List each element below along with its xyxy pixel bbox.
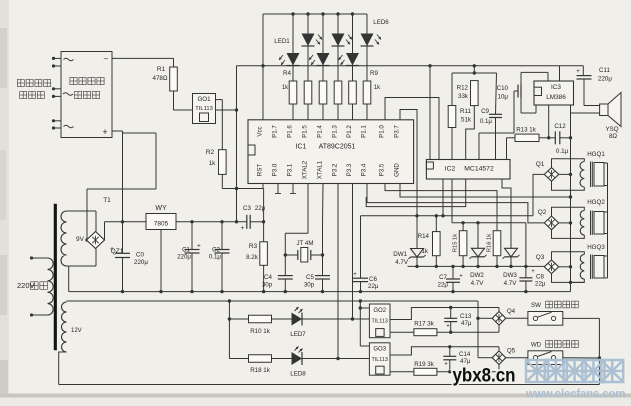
svg-text:0.1μ: 0.1μ bbox=[480, 118, 493, 125]
svg-text:P3.3: P3.3 bbox=[346, 163, 353, 176]
capacitor C14 47u bbox=[443, 347, 471, 372]
svg-text:XTAL2: XTAL2 bbox=[302, 160, 309, 179]
triac driver Q5 bbox=[492, 348, 515, 365]
svg-text:IC3: IC3 bbox=[551, 84, 561, 91]
svg-text:Q2: Q2 bbox=[538, 209, 547, 216]
bridge rectifier QZ1 bbox=[87, 232, 124, 256]
svg-text:WY: WY bbox=[155, 205, 167, 212]
IC1 top pin labels bbox=[257, 125, 401, 138]
zener DW1 4.7V bbox=[393, 216, 425, 267]
wire GO1 collector to R2 bbox=[216, 100, 223, 150]
wire rail B bbox=[452, 179, 526, 225]
wire +5V rail bbox=[176, 220, 247, 223]
triac driver Q3 bbox=[536, 254, 559, 274]
svg-text:4.7V: 4.7V bbox=[395, 259, 409, 266]
resistor R16 1k bbox=[486, 231, 500, 267]
watermark www.elecfans.com bbox=[525, 389, 625, 401]
svg-text:LED6: LED6 bbox=[373, 19, 389, 26]
svg-text:Q4: Q4 bbox=[507, 308, 516, 315]
wire LED7 to GO2 bbox=[302, 318, 369, 320]
svg-text:R18 1k: R18 1k bbox=[250, 367, 271, 374]
capacitor C9 0.1u bbox=[480, 73, 502, 160]
svg-text:HGQ1: HGQ1 bbox=[587, 151, 605, 158]
svg-text:GO1: GO1 bbox=[197, 96, 211, 103]
resistor R8 1k bbox=[349, 81, 357, 120]
svg-text:220μ: 220μ bbox=[598, 76, 612, 83]
svg-text:+: + bbox=[531, 269, 535, 275]
svg-text:C6: C6 bbox=[369, 276, 377, 283]
svg-text:C12: C12 bbox=[554, 123, 566, 130]
wire Q1 to HGQ1 bbox=[552, 159, 585, 190]
svg-text:LED8: LED8 bbox=[290, 371, 306, 378]
T1 220V primary winding bbox=[30, 256, 53, 316]
wire Vcc riser node A bbox=[235, 66, 238, 224]
svg-text:LED7: LED7 bbox=[290, 331, 306, 338]
LED6 indicator diode bbox=[361, 14, 382, 81]
LED3 indicator diode bbox=[309, 14, 330, 81]
IC2 MC14572 bbox=[426, 160, 510, 180]
svg-text:C5: C5 bbox=[306, 274, 314, 281]
resistor R1 478 ohm bbox=[153, 66, 178, 91]
svg-text:Q1: Q1 bbox=[536, 161, 545, 168]
svg-text:–: – bbox=[104, 54, 109, 63]
svg-text:C4: C4 bbox=[264, 274, 272, 281]
svg-text:+: + bbox=[353, 272, 357, 278]
wire WD return bbox=[563, 357, 600, 359]
wire IC3 output bbox=[571, 105, 600, 113]
svg-text:LM386: LM386 bbox=[546, 94, 566, 101]
relay input terminals bbox=[52, 57, 61, 130]
svg-text:1k: 1k bbox=[209, 160, 216, 167]
svg-text:33k: 33k bbox=[458, 93, 469, 100]
LED7 bbox=[272, 307, 307, 338]
label R9 1k bbox=[370, 70, 381, 91]
svg-text:8Ω: 8Ω bbox=[609, 133, 617, 140]
resistor R14 1k bbox=[418, 216, 440, 267]
wire R19 to Q5 bbox=[437, 365, 499, 374]
svg-text:12V: 12V bbox=[71, 328, 82, 334]
triac driver Q4 bbox=[492, 308, 515, 325]
wire Q4 to SW bbox=[506, 317, 528, 319]
svg-text:1k: 1k bbox=[282, 85, 289, 91]
svg-text:P3.2: P3.2 bbox=[332, 163, 339, 176]
svg-text:C7: C7 bbox=[439, 274, 447, 281]
label 220V input bbox=[17, 281, 47, 290]
wire Q5 to WD bbox=[506, 357, 528, 359]
wire Q5 top bbox=[498, 347, 500, 351]
svg-text:MC14572: MC14572 bbox=[464, 166, 494, 173]
svg-text:TIL113: TIL113 bbox=[372, 357, 388, 363]
svg-text:HGQ3: HGQ3 bbox=[587, 244, 605, 251]
watermark elecfans logo bbox=[526, 360, 623, 382]
svg-text:P1.3: P1.3 bbox=[332, 125, 339, 138]
IC1 AT89C2051 microcontroller bbox=[248, 120, 414, 184]
svg-text:C2: C2 bbox=[212, 247, 220, 254]
triac driver Q2 bbox=[538, 209, 559, 230]
wire Q2 to HGQ2 bbox=[552, 207, 585, 238]
relay K1 three-phase solid state relay box bbox=[61, 52, 112, 138]
svg-text:RST: RST bbox=[257, 164, 264, 177]
LED4 indicator diode bbox=[332, 14, 353, 81]
LED1 indicator diode bbox=[279, 14, 300, 81]
wire XTAL2 column bbox=[284, 184, 308, 276]
svg-text:JT 4M: JT 4M bbox=[296, 240, 313, 247]
svg-text:HGQ2: HGQ2 bbox=[587, 199, 605, 206]
wire Vcc column to IC1 bbox=[261, 14, 264, 120]
svg-text:P1.1: P1.1 bbox=[361, 125, 368, 138]
optocoupler GO3 TIL113 bbox=[369, 343, 390, 375]
wire IC2 pin jog bbox=[366, 179, 466, 207]
svg-text:R10 1k: R10 1k bbox=[250, 328, 271, 335]
svg-text:GO2: GO2 bbox=[373, 308, 386, 314]
capacitor C2 0.1u bbox=[209, 222, 230, 292]
ground rail bbox=[69, 266, 571, 293]
wire XTAL1 column bbox=[321, 184, 324, 276]
svg-text:10μ: 10μ bbox=[498, 94, 509, 101]
wire Vcc to IC2 bbox=[429, 66, 431, 160]
svg-text:P1.7: P1.7 bbox=[272, 125, 279, 138]
wire P3.5 to R16 bbox=[385, 184, 497, 231]
wire R17 to Q4 bbox=[437, 325, 499, 334]
wire P3.4 to Q2 control bbox=[367, 184, 544, 223]
svg-text:P1.6: P1.6 bbox=[287, 125, 294, 138]
wire HGQ output common bbox=[604, 163, 608, 278]
wire R11 R12 top rail bbox=[452, 66, 497, 75]
svg-text:IC1: IC1 bbox=[296, 144, 307, 151]
svg-text:51k: 51k bbox=[461, 117, 472, 124]
wire P3.2 column bbox=[336, 184, 339, 361]
svg-text:YSQ: YSQ bbox=[605, 126, 618, 133]
resistor R17 3k bbox=[390, 321, 437, 336]
capacitor C11 220u bbox=[576, 66, 612, 106]
wire C10 bottom loop bbox=[521, 98, 536, 114]
svg-text:P1.4: P1.4 bbox=[317, 125, 324, 138]
label 温度开关 bbox=[546, 341, 579, 348]
transformer T1 core bbox=[54, 197, 111, 350]
svg-text:C9: C9 bbox=[481, 108, 489, 115]
optocoupler GO2 TIL113 bbox=[369, 304, 390, 338]
Vcc distribution bus bbox=[237, 64, 584, 67]
svg-text:8.2k: 8.2k bbox=[246, 254, 259, 261]
svg-text:GO3: GO3 bbox=[373, 347, 386, 353]
svg-text:C11: C11 bbox=[599, 67, 610, 74]
T1 12V secondary winding bbox=[59, 302, 82, 385]
svg-text:GND: GND bbox=[394, 163, 401, 177]
svg-text:47μ: 47μ bbox=[461, 320, 472, 327]
LED5 indicator diode bbox=[339, 14, 360, 81]
LED2 indicator diode bbox=[302, 14, 323, 81]
svg-text:Vcc: Vcc bbox=[257, 126, 264, 136]
svg-text:C8: C8 bbox=[536, 274, 544, 281]
svg-text:P3.1: P3.1 bbox=[287, 163, 294, 176]
svg-text:+: + bbox=[459, 274, 463, 280]
label R4 1k bbox=[282, 70, 292, 91]
svg-text:P3.7: P3.7 bbox=[394, 125, 401, 138]
svg-text:T1: T1 bbox=[103, 197, 111, 204]
wire sensing column bbox=[228, 301, 231, 359]
svg-text:+: + bbox=[241, 225, 245, 232]
scan artifact bottom band bbox=[0, 394, 631, 398]
svg-text:7805: 7805 bbox=[154, 221, 169, 228]
svg-text:R19 3k: R19 3k bbox=[414, 361, 435, 368]
crystal JT 4M bbox=[285, 240, 322, 262]
svg-text:+: + bbox=[110, 246, 114, 253]
wire C10 to IC3 input bbox=[521, 72, 548, 84]
svg-text:DW3: DW3 bbox=[503, 272, 517, 279]
svg-text:IC2: IC2 bbox=[445, 166, 456, 173]
speaker YSQ 8 ohm bbox=[600, 93, 621, 141]
capacitor C4 30p bbox=[262, 274, 293, 292]
capacitor C5 30p bbox=[304, 274, 330, 292]
wire Q3 to HGQ3 bbox=[552, 252, 585, 283]
wire GO2 output to C13 rail bbox=[390, 306, 499, 320]
wire rail B drop bbox=[525, 223, 527, 267]
svg-text:22μ: 22μ bbox=[438, 282, 449, 289]
svg-text:1k: 1k bbox=[374, 85, 381, 91]
pulse transformer HGQ2 bbox=[580, 199, 605, 235]
svg-text:R4: R4 bbox=[283, 70, 291, 77]
svg-text:4.7V: 4.7V bbox=[471, 280, 485, 287]
label LED6 bbox=[373, 19, 389, 26]
svg-text:220μ: 220μ bbox=[177, 254, 191, 261]
resistor R10 1k bbox=[229, 315, 271, 335]
svg-text:+: + bbox=[444, 362, 448, 368]
wire SW return bbox=[563, 318, 601, 384]
scan artifact left band bbox=[0, 0, 9, 406]
resistor R2 1k bbox=[206, 149, 226, 174]
wire RST pin column bbox=[262, 184, 265, 292]
wire Q1 control bbox=[533, 174, 544, 215]
svg-text:R2: R2 bbox=[206, 149, 215, 156]
wire GO3 output to C14 rail bbox=[390, 345, 499, 355]
svg-text:478Ω: 478Ω bbox=[153, 75, 168, 82]
wire R1 to GO1 bbox=[174, 91, 193, 110]
capacitor C8 22u bbox=[519, 266, 545, 291]
svg-text:R12: R12 bbox=[457, 85, 469, 92]
svg-text:SW: SW bbox=[531, 302, 541, 309]
svg-text:R17 3k: R17 3k bbox=[414, 321, 435, 328]
resistor R9 1k bbox=[363, 81, 371, 120]
T1 9V secondary winding bbox=[61, 211, 96, 266]
regulator WY 7805 bbox=[146, 205, 176, 230]
wire IC3 bypass stub bbox=[548, 105, 550, 138]
svg-text:0.1μ: 0.1μ bbox=[209, 254, 222, 261]
wire relay minus to R1 bbox=[112, 58, 174, 67]
svg-text:Q5: Q5 bbox=[507, 348, 516, 355]
svg-text:P1.0: P1.0 bbox=[379, 125, 386, 138]
resistor R11 51k bbox=[448, 73, 472, 160]
watermark ybx8.cn bbox=[453, 365, 516, 387]
svg-text:22μ: 22μ bbox=[535, 281, 546, 288]
svg-text:1k: 1k bbox=[421, 248, 428, 255]
svg-text:220μ: 220μ bbox=[134, 259, 148, 266]
label 控制三相电热管 bbox=[17, 80, 50, 99]
svg-text:Q3: Q3 bbox=[536, 254, 545, 261]
svg-text:LED1: LED1 bbox=[274, 38, 290, 45]
svg-text:C3: C3 bbox=[243, 205, 251, 212]
svg-text:P1.5: P1.5 bbox=[302, 125, 309, 138]
resistor R18 1k bbox=[229, 355, 271, 374]
svg-text:R15 1k: R15 1k bbox=[453, 234, 459, 252]
svg-text:R14: R14 bbox=[418, 233, 430, 240]
resistor R19 3k bbox=[390, 361, 437, 375]
wire IC3 Vcc stub bbox=[559, 66, 561, 81]
zener DW2 4.7V bbox=[470, 223, 487, 287]
wire P1.0 to IC2 bbox=[385, 98, 439, 160]
svg-text:+: + bbox=[102, 127, 107, 137]
svg-text:R16 1k: R16 1k bbox=[486, 234, 492, 252]
pulse transformer HGQ3 bbox=[580, 244, 605, 279]
wire P3.7 to zener rail bbox=[400, 110, 417, 216]
svg-text:TIL113: TIL113 bbox=[372, 319, 388, 325]
capacitor C10 10u bbox=[479, 85, 521, 160]
switch SW water level bbox=[528, 302, 563, 325]
svg-text:R13 1k: R13 1k bbox=[516, 127, 537, 134]
resistor R7 1k bbox=[334, 81, 342, 120]
svg-text:WD: WD bbox=[531, 342, 542, 349]
svg-text:C1: C1 bbox=[182, 247, 190, 254]
Vcc top bus bbox=[263, 12, 367, 15]
svg-text:P3.4: P3.4 bbox=[361, 163, 368, 176]
zener DW3 4.7V bbox=[502, 179, 520, 287]
wire Q4 control bbox=[476, 301, 492, 358]
wire ground rail return bbox=[571, 281, 585, 283]
triac driver Q1 bbox=[536, 161, 559, 181]
NC stub P3.1 bbox=[290, 184, 296, 194]
svg-text:ybx8.cn: ybx8.cn bbox=[453, 365, 516, 387]
svg-text:DW1: DW1 bbox=[393, 251, 407, 258]
resistor R15 1k bbox=[453, 223, 467, 267]
svg-text:+: + bbox=[197, 243, 201, 250]
label LED1 bbox=[274, 38, 290, 45]
svg-text:4.7V: 4.7V bbox=[504, 280, 518, 287]
svg-text:R1: R1 bbox=[157, 66, 166, 73]
svg-text:0.1μ: 0.1μ bbox=[556, 148, 569, 155]
svg-text:R9: R9 bbox=[370, 70, 378, 77]
IC1 bottom pin labels bbox=[257, 160, 401, 179]
optocoupler GO1 TIL113 bbox=[193, 94, 216, 124]
svg-text:C0: C0 bbox=[136, 252, 144, 259]
svg-text:C13: C13 bbox=[460, 313, 472, 320]
svg-text:+: + bbox=[446, 324, 450, 330]
wire 12V top rail bbox=[67, 299, 479, 302]
wire 12V bottom rail bbox=[59, 384, 600, 386]
wire GO1 emitter bbox=[216, 108, 239, 111]
wire IC2 stub to rail A bbox=[442, 179, 444, 216]
wire 7805 ground bbox=[160, 230, 162, 292]
wire GND pin bus bbox=[400, 184, 572, 199]
svg-text:30p: 30p bbox=[304, 282, 315, 289]
capacitor C0 220u bbox=[110, 222, 148, 292]
svg-text:www.elecfans.com: www.elecfans.com bbox=[525, 389, 625, 401]
wire relay plus bbox=[85, 131, 156, 242]
capacitor C13 47u bbox=[444, 308, 472, 333]
svg-text:C14: C14 bbox=[459, 351, 471, 358]
svg-text:22μ: 22μ bbox=[368, 283, 379, 290]
capacitor C6 22u bbox=[353, 216, 379, 292]
svg-text:+: + bbox=[576, 68, 580, 75]
label 水位开关 bbox=[546, 301, 579, 308]
svg-text:9V: 9V bbox=[76, 236, 85, 243]
svg-text:C10: C10 bbox=[497, 85, 509, 92]
wire GO2 GO3 bias column bbox=[359, 301, 370, 346]
LED8 bbox=[272, 347, 307, 378]
pulse transformer HGQ1 bbox=[580, 151, 605, 187]
svg-text:P3.5: P3.5 bbox=[379, 163, 386, 176]
resistor R6 1k bbox=[319, 81, 327, 120]
svg-text:XTAL1: XTAL1 bbox=[317, 160, 324, 179]
svg-text:R11: R11 bbox=[460, 108, 471, 115]
resistor R3 8.2k bbox=[246, 242, 267, 265]
wire LED8 to GO3 bbox=[302, 358, 369, 360]
wire rail A bbox=[361, 214, 534, 217]
wire rail C bbox=[408, 265, 545, 268]
wire QZ1 + output bbox=[105, 220, 147, 240]
svg-text:30p: 30p bbox=[262, 282, 273, 289]
resistor R4 1k bbox=[289, 81, 297, 120]
resistor R5 1k bbox=[304, 81, 312, 120]
svg-text:P3.0: P3.0 bbox=[272, 163, 279, 176]
wire P3.3 column bbox=[351, 184, 354, 321]
svg-text:22μ: 22μ bbox=[255, 205, 266, 212]
svg-text:P1.2: P1.2 bbox=[346, 125, 353, 138]
resistor R12 33k bbox=[457, 81, 478, 160]
wire Q4 top bbox=[498, 308, 500, 312]
switch WD temperature bbox=[528, 342, 563, 365]
capacitor C1 220u bbox=[177, 222, 201, 292]
svg-text:R3: R3 bbox=[249, 243, 258, 250]
IC3 LM386 audio amplifier bbox=[534, 81, 574, 105]
svg-text:AT89C2051: AT89C2051 bbox=[319, 144, 356, 151]
capacitor C7 22u bbox=[438, 266, 464, 291]
wire R2 to RST line bbox=[222, 174, 263, 190]
wire Q5 control bbox=[478, 357, 492, 359]
svg-text:TIL113: TIL113 bbox=[195, 106, 213, 112]
svg-text:DW2: DW2 bbox=[470, 272, 484, 279]
NC stub P3.0 bbox=[275, 184, 281, 194]
capacitor C12 0.1u bbox=[549, 123, 571, 155]
resistor R13 1k bbox=[507, 127, 551, 160]
wire audio common column bbox=[569, 113, 572, 292]
capacitor C3 22u bbox=[241, 205, 266, 232]
